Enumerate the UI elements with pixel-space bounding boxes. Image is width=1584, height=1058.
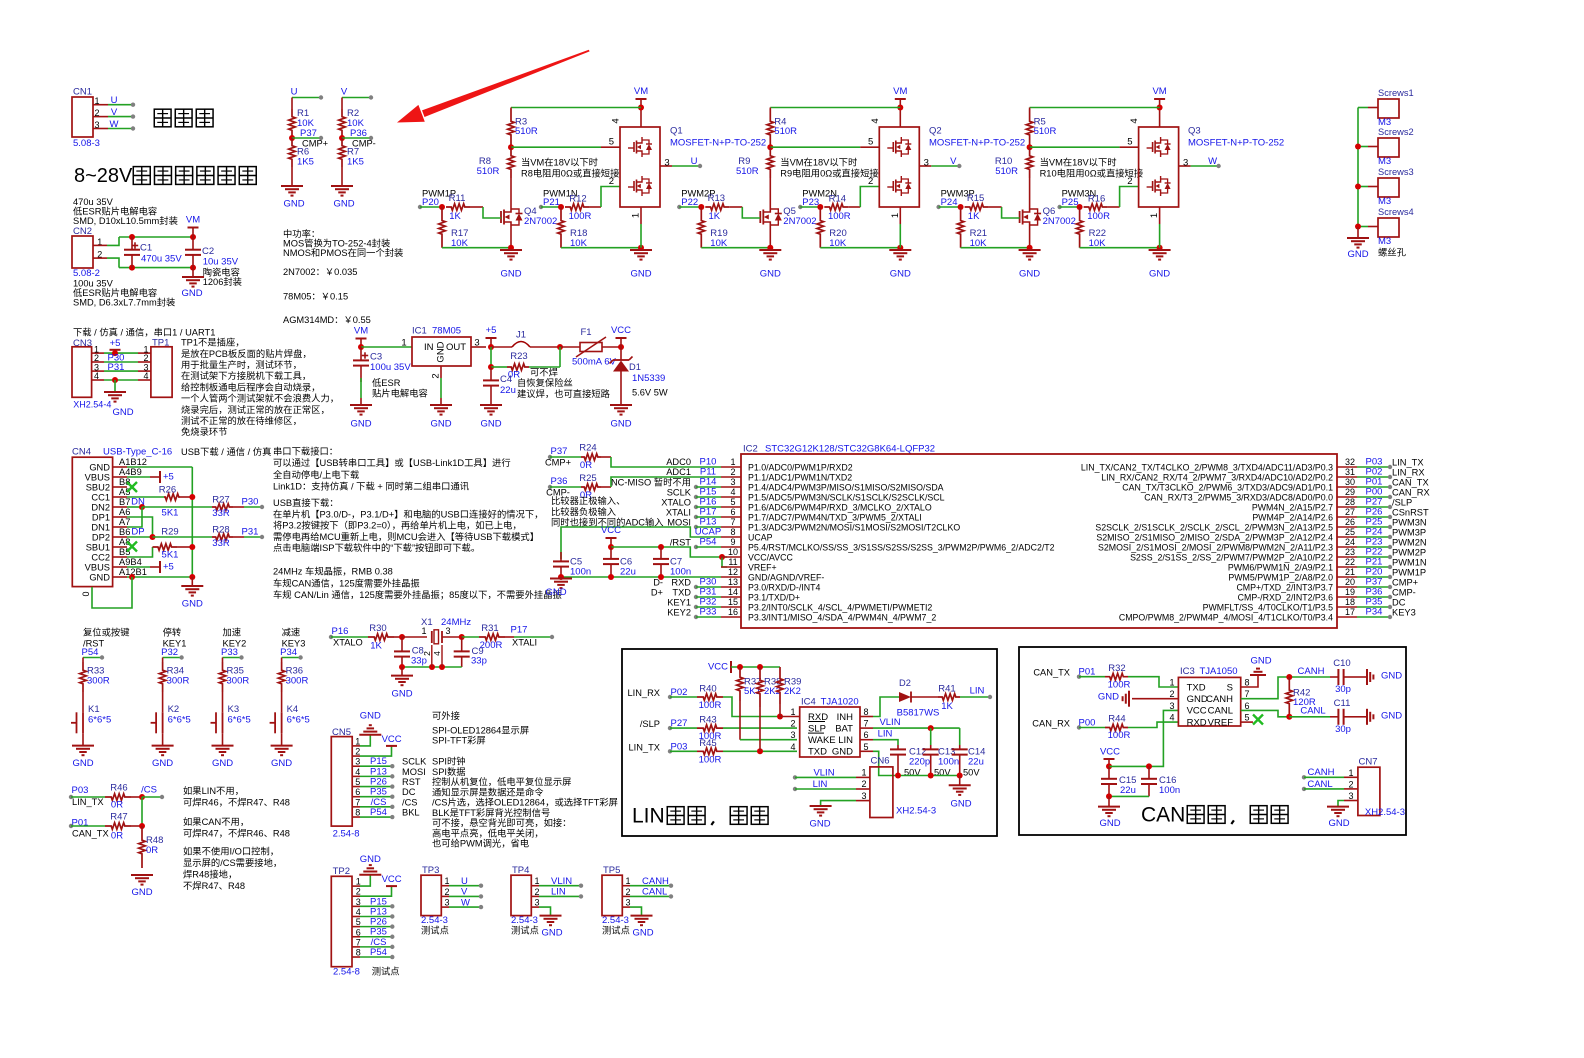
svg-text:PWM2N: PWM2N <box>1392 538 1427 548</box>
svg-text:NMOS和PMOS在同一个封装: NMOS和PMOS在同一个封装 <box>283 247 403 258</box>
svg-text:一个人管两个测试架就不会浪费人力，: 一个人管两个测试架就不会浪费人力， <box>181 393 339 404</box>
svg-text:22u: 22u <box>968 757 984 768</box>
svg-text:X1: X1 <box>421 617 433 628</box>
svg-text:28: 28 <box>1345 497 1355 507</box>
svg-text:IC4: IC4 <box>801 697 816 708</box>
svg-text:23: 23 <box>1345 547 1355 557</box>
svg-text:2: 2 <box>1348 780 1353 790</box>
svg-text:建议焊，也可直接短路: 建议焊，也可直接短路 <box>517 388 611 399</box>
svg-text:VLIN: VLIN <box>551 876 572 887</box>
svg-text:可焊R47，不焊R46、R48: 可焊R47，不焊R46、R48 <box>183 828 290 839</box>
svg-text:C10: C10 <box>1333 658 1350 669</box>
svg-text:5: 5 <box>609 137 614 148</box>
svg-text:26: 26 <box>1345 517 1355 527</box>
svg-text:9: 9 <box>730 537 735 547</box>
svg-text:8: 8 <box>863 707 868 717</box>
svg-text:GND: GND <box>430 419 451 430</box>
svg-text:U: U <box>291 87 298 98</box>
svg-text:比较器负极输入: 比较器负极输入 <box>551 506 616 517</box>
svg-text:22u: 22u <box>500 385 516 396</box>
svg-text:GND: GND <box>832 747 853 758</box>
svg-text:ADC1: ADC1 <box>666 467 691 477</box>
svg-text:6*6*5: 6*6*5 <box>168 715 191 726</box>
svg-text:用于批量生产时，测试环节，: 用于批量生产时，测试环节， <box>181 359 302 370</box>
svg-text:自恢复保险丝: 自恢复保险丝 <box>517 377 573 388</box>
svg-text:32: 32 <box>1345 457 1355 467</box>
svg-text:LIN: LIN <box>878 729 893 740</box>
svg-text:KEY2: KEY2 <box>667 608 691 618</box>
svg-text:烧录完后，测试正常的放在正常区，: 烧录完后，测试正常的放在正常区， <box>181 404 330 415</box>
svg-text:GND/AGND/VREF-: GND/AGND/VREF- <box>748 573 824 583</box>
svg-text:CMP-: CMP- <box>1392 588 1416 598</box>
svg-text:低ESR贴片电解电容: 低ESR贴片电解电容 <box>73 287 157 298</box>
svg-text:33R: 33R <box>212 508 230 519</box>
svg-text:CAN: CAN <box>1141 804 1185 827</box>
svg-text:2: 2 <box>1127 176 1132 187</box>
svg-text:P1.4/ADC4/PWM3P/MISO/S1MISO/S2: P1.4/ADC4/PWM3P/MISO/S1MISO/S2MISO/SDA <box>748 483 944 493</box>
svg-text:R41: R41 <box>938 684 955 695</box>
svg-text:A9B4: A9B4 <box>119 557 142 567</box>
svg-text:100R: 100R <box>828 211 851 222</box>
svg-text:SMD, D6.3xL7.7mm封装: SMD, D6.3xL7.7mm封装 <box>73 296 175 307</box>
svg-text:GND: GND <box>1099 818 1120 829</box>
svg-text:免烧录环节: 免烧录环节 <box>181 426 228 437</box>
svg-text:VCC: VCC <box>1187 706 1207 717</box>
svg-text:1: 1 <box>790 707 795 717</box>
svg-text:5: 5 <box>355 777 360 787</box>
svg-text:GND: GND <box>181 288 202 299</box>
svg-text:/CS: /CS <box>402 797 418 807</box>
svg-text:4: 4 <box>1129 118 1140 123</box>
svg-text:50V: 50V <box>963 768 980 778</box>
svg-text:8: 8 <box>730 527 735 537</box>
svg-text:P33: P33 <box>221 647 238 658</box>
svg-text:D1: D1 <box>629 362 641 372</box>
svg-text:2.54-8: 2.54-8 <box>333 967 360 978</box>
svg-text:P1.6/ADC6/PWM4P/RXD_3/MCLKO_2/: P1.6/ADC6/PWM4P/RXD_3/MCLKO_2/XTALO <box>748 503 932 513</box>
svg-text:BKL: BKL <box>402 808 420 818</box>
svg-text:GND: GND <box>950 799 971 810</box>
svg-text:AGM314MD：￥0.55: AGM314MD：￥0.55 <box>283 315 371 325</box>
svg-text:CAN_TX/T3CLKO_2/PWM6_3/TXD3/AD: CAN_TX/T3CLKO_2/PWM6_3/TXD3/ADC9/AD1/P0.… <box>1122 483 1333 493</box>
svg-text:GND: GND <box>760 269 781 280</box>
svg-text:P3.3/INT1/MISO_4/SDA_4/PWM4N_4: P3.3/INT1/MISO_4/SDA_4/PWM4N_4/PWM7_2 <box>748 613 936 623</box>
svg-text:TXD: TXD <box>808 747 827 758</box>
svg-text:24MHz 车规晶振，RMB 0.38: 24MHz 车规晶振，RMB 0.38 <box>273 566 393 577</box>
svg-text:1: 1 <box>1348 768 1353 778</box>
svg-text:3: 3 <box>445 626 450 636</box>
svg-text:LIN: LIN <box>632 805 665 828</box>
svg-text:P1.1/ADC1/PWM1N/TXD2: P1.1/ADC1/PWM1N/TXD2 <box>748 473 852 483</box>
svg-text:1K5: 1K5 <box>297 157 314 168</box>
svg-text:CMP+/TXD_2/INT3/P3.7: CMP+/TXD_2/INT3/P3.7 <box>1236 583 1333 593</box>
svg-text:2: 2 <box>625 887 630 897</box>
svg-text:SCLK: SCLK <box>667 488 692 498</box>
svg-text:CN2: CN2 <box>73 226 92 237</box>
svg-text:GND: GND <box>1149 269 1170 280</box>
svg-text:R8电阻用0Ω或直接短接: R8电阻用0Ω或直接短接 <box>521 168 619 179</box>
svg-text:P1.7/ADC7/PWM4N/TXD_3/PWM5_2/X: P1.7/ADC7/PWM4N/TXD_3/PWM5_2/XTALI <box>748 513 922 523</box>
svg-text:IN: IN <box>424 342 434 353</box>
svg-text:Screws3: Screws3 <box>1378 167 1414 177</box>
svg-text:USB直接下载：: USB直接下载： <box>273 497 339 508</box>
svg-text:GND: GND <box>1347 249 1368 260</box>
svg-text:复位或按键: 复位或按键 <box>83 627 130 638</box>
svg-text:R15: R15 <box>967 193 984 204</box>
svg-text:S2MISO_2/S1MISO_2/MISO_2/SDA_2: S2MISO_2/S1MISO_2/MISO_2/SDA_2/PWM3P_2/A… <box>1096 533 1333 543</box>
svg-text:GND: GND <box>1098 692 1119 703</box>
svg-text:5: 5 <box>1244 713 1249 723</box>
svg-text:LIN_TX/CAN2_TX/T4CLKO_2/PWM8_3: LIN_TX/CAN2_TX/T4CLKO_2/PWM8_3/TXD4/ADC1… <box>1081 463 1333 473</box>
svg-text:W: W <box>461 897 470 908</box>
svg-text:当VM在18V以下时: 当VM在18V以下时 <box>521 157 598 168</box>
svg-text:VM: VM <box>893 86 907 97</box>
svg-text:DN1: DN1 <box>91 523 110 533</box>
svg-text:XTALO: XTALO <box>661 498 691 508</box>
svg-text:P54: P54 <box>82 647 99 658</box>
svg-text:K3: K3 <box>228 704 240 715</box>
svg-text:P3.1/TXD/D+: P3.1/TXD/D+ <box>748 593 800 603</box>
svg-text:2: 2 <box>861 779 866 789</box>
svg-text:+5: +5 <box>163 562 174 573</box>
svg-text:+5: +5 <box>110 338 121 349</box>
svg-text:1: 1 <box>444 876 449 886</box>
svg-text:100n: 100n <box>1159 785 1180 796</box>
svg-text:2N7002: 2N7002 <box>1043 216 1076 227</box>
svg-text:P17: P17 <box>511 625 528 636</box>
svg-text:7: 7 <box>1244 689 1249 699</box>
svg-text:比较器正极输入、: 比较器正极输入、 <box>551 495 625 506</box>
svg-text:MOSFET-N+P-TO-252: MOSFET-N+P-TO-252 <box>929 138 1025 149</box>
svg-text:VREF+: VREF+ <box>748 563 777 573</box>
svg-text:P36: P36 <box>551 476 568 487</box>
svg-text:1K: 1K <box>370 641 382 652</box>
svg-text:8: 8 <box>356 948 361 958</box>
svg-text:1: 1 <box>401 338 406 349</box>
svg-text:GND: GND <box>391 689 412 700</box>
svg-text:P31: P31 <box>108 362 125 373</box>
svg-text:R25: R25 <box>579 473 596 484</box>
svg-text:2N7002：￥0.035: 2N7002：￥0.035 <box>283 267 357 277</box>
svg-text:100R: 100R <box>1108 730 1131 741</box>
svg-text:/CS: /CS <box>141 785 157 796</box>
svg-text:R44: R44 <box>1108 714 1125 725</box>
svg-text:XTALO: XTALO <box>333 638 363 648</box>
svg-text:0: 0 <box>81 591 91 596</box>
svg-text:2: 2 <box>790 719 795 729</box>
svg-text:CAN_TX: CAN_TX <box>1392 478 1429 488</box>
svg-text:GND: GND <box>131 887 152 898</box>
svg-text:CMP+: CMP+ <box>545 458 571 468</box>
svg-text:C2: C2 <box>202 246 214 257</box>
svg-text:5K1: 5K1 <box>162 550 179 561</box>
svg-text:33p: 33p <box>411 656 427 667</box>
svg-text:测试点: 测试点 <box>511 925 539 936</box>
svg-text:CSnRST: CSnRST <box>1392 508 1429 518</box>
svg-text:RXD: RXD <box>1187 717 1207 728</box>
svg-text:510R: 510R <box>774 126 797 137</box>
svg-text:INH: INH <box>837 712 854 723</box>
svg-text:LIN_RX: LIN_RX <box>1392 468 1425 478</box>
svg-text:1: 1 <box>356 877 361 887</box>
svg-text:GND: GND <box>480 419 501 430</box>
svg-text:P1.0/ADC0/PWM1P/RXD2: P1.0/ADC0/PWM1P/RXD2 <box>748 463 853 473</box>
svg-text:GND: GND <box>632 928 653 939</box>
svg-text:P33: P33 <box>700 607 717 618</box>
svg-text:S2SS_2/S1SS_2/SS_2/PWM7/PWM2P_: S2SS_2/S1SS_2/SS_2/PWM7/PWM2P_2/A10/P2.2 <box>1130 553 1333 563</box>
svg-text:VCC: VCC <box>611 325 631 336</box>
svg-text:5.08-2: 5.08-2 <box>73 268 100 279</box>
svg-text:16: 16 <box>728 607 738 617</box>
svg-text:VLIN: VLIN <box>879 717 900 728</box>
svg-text:VBUS: VBUS <box>85 473 110 483</box>
svg-text:100R: 100R <box>699 754 722 765</box>
svg-text:GND: GND <box>112 407 133 418</box>
svg-text:下载 / 仿真 / 通信，串口1 / UART1: 下载 / 仿真 / 通信，串口1 / UART1 <box>73 327 215 338</box>
svg-text:CAN_RX: CAN_RX <box>1032 719 1070 729</box>
svg-text:WAKE: WAKE <box>808 735 836 746</box>
svg-text:GND: GND <box>360 711 381 722</box>
svg-text:TJA1050: TJA1050 <box>1200 666 1238 677</box>
svg-text:VBUS: VBUS <box>85 563 110 573</box>
svg-text:+5: +5 <box>486 325 497 336</box>
svg-text:8: 8 <box>355 808 360 818</box>
svg-text:5K1: 5K1 <box>162 508 179 519</box>
svg-text:P16: P16 <box>332 626 349 637</box>
svg-text:1: 1 <box>94 96 99 106</box>
svg-text:220p: 220p <box>909 757 930 768</box>
svg-text:3: 3 <box>1183 158 1188 169</box>
svg-text:TP5: TP5 <box>603 865 620 876</box>
svg-text:3: 3 <box>924 158 929 169</box>
svg-text:点击电脑端ISP下载软件中的“下载”按钮即可下载。: 点击电脑端ISP下载软件中的“下载”按钮即可下载。 <box>273 542 480 553</box>
svg-text:300R: 300R <box>286 676 309 687</box>
svg-text:SPI-TFT彩屏: SPI-TFT彩屏 <box>432 735 486 745</box>
svg-text:RXD: RXD <box>671 578 691 588</box>
svg-text:GND: GND <box>333 199 354 210</box>
svg-text:BLK是TFT彩屏背光控制信号: BLK是TFT彩屏背光控制信号 <box>432 807 550 818</box>
svg-text:DC: DC <box>1392 598 1406 608</box>
svg-text:7: 7 <box>355 797 360 807</box>
svg-text:DC: DC <box>402 787 416 797</box>
svg-text:OUT: OUT <box>446 342 466 353</box>
svg-text:XH2.54-4: XH2.54-4 <box>73 400 111 410</box>
svg-text:7: 7 <box>356 937 361 947</box>
svg-text:P5.4/RST/MCLKO/SS/SS_3/S1SS/S2: P5.4/RST/MCLKO/SS/SS_3/S1SS/S2SS/S2SS_3/… <box>748 543 1055 553</box>
svg-text:CANL: CANL <box>1208 706 1233 717</box>
svg-text:NC-MISO 暂时不用: NC-MISO 暂时不用 <box>611 477 691 488</box>
svg-text:2: 2 <box>431 373 442 378</box>
svg-text:P32: P32 <box>161 647 178 658</box>
svg-text:可外接: 可外接 <box>432 710 460 721</box>
svg-text:VM: VM <box>1152 86 1166 97</box>
svg-text:测试点: 测试点 <box>421 925 449 936</box>
svg-text:22u: 22u <box>620 567 636 578</box>
svg-text:中功率：: 中功率： <box>283 228 320 239</box>
svg-text:不焊R47、R48: 不焊R47、R48 <box>183 880 245 891</box>
svg-text:3: 3 <box>664 158 669 169</box>
svg-text:CAN_TX: CAN_TX <box>1033 668 1070 678</box>
svg-text:D2: D2 <box>899 678 911 688</box>
svg-text:MOSI: MOSI <box>667 518 691 528</box>
svg-text:33R: 33R <box>212 538 230 549</box>
svg-text:100R: 100R <box>1108 680 1131 691</box>
svg-text:100u 35V: 100u 35V <box>73 278 114 288</box>
svg-text:3: 3 <box>1169 701 1174 711</box>
svg-text:C3: C3 <box>370 352 382 363</box>
svg-text:控制从机复位，低电平复位显示屏: 控制从机复位，低电平复位显示屏 <box>432 776 571 787</box>
svg-text:4: 4 <box>143 371 148 381</box>
svg-text:M3: M3 <box>1378 156 1391 167</box>
svg-text:GND: GND <box>72 758 93 769</box>
svg-text:GND: GND <box>350 419 371 430</box>
svg-text:停转: 停转 <box>163 627 182 638</box>
svg-text:Link1D：支持仿真 / 下载 + 同时第二组串口通讯: Link1D：支持仿真 / 下载 + 同时第二组串口通讯 <box>273 481 469 492</box>
svg-text:加速: 加速 <box>223 628 242 638</box>
svg-text:如果不使用I/O口控制，: 如果不使用I/O口控制， <box>183 846 279 857</box>
svg-text:18: 18 <box>1345 597 1355 607</box>
svg-text:SCLK: SCLK <box>402 757 427 767</box>
svg-text:3: 3 <box>444 898 449 908</box>
svg-text:当VM在18V以下时: 当VM在18V以下时 <box>780 157 857 168</box>
svg-text:100n: 100n <box>938 757 959 768</box>
svg-text:5.08-3: 5.08-3 <box>73 138 100 149</box>
svg-text:2.54-3: 2.54-3 <box>511 915 538 926</box>
svg-text:CN4: CN4 <box>72 447 91 458</box>
svg-text:500mA 6V: 500mA 6V <box>572 357 616 368</box>
svg-text:PWM3N: PWM3N <box>1392 518 1427 528</box>
svg-text:GND: GND <box>1250 656 1271 667</box>
svg-text:GND: GND <box>89 463 110 473</box>
svg-text:如果LIN不用，: 如果LIN不用， <box>183 785 244 796</box>
svg-text:3: 3 <box>790 730 795 740</box>
svg-text:VCC: VCC <box>601 525 621 536</box>
svg-text:LIN: LIN <box>551 887 566 898</box>
svg-text:MOSFET-N+P-TO-252: MOSFET-N+P-TO-252 <box>670 138 766 149</box>
svg-text:A4B9: A4B9 <box>119 467 142 477</box>
svg-text:Screws2: Screws2 <box>1378 127 1414 137</box>
svg-text:DN: DN <box>131 497 145 508</box>
svg-text:可不焊: 可不焊 <box>530 367 558 378</box>
svg-text:MOSI: MOSI <box>402 767 426 777</box>
svg-text:UCAP: UCAP <box>748 533 773 543</box>
svg-text:/RST: /RST <box>670 538 691 548</box>
svg-text:当VM在18V以下时: 当VM在18V以下时 <box>1040 157 1117 168</box>
svg-text:SPI数据: SPI数据 <box>432 766 466 777</box>
svg-text:PWM1P: PWM1P <box>1392 568 1426 578</box>
svg-text:2: 2 <box>444 887 449 897</box>
svg-text:5: 5 <box>730 497 735 507</box>
svg-text:CAN_TX: CAN_TX <box>72 829 109 839</box>
svg-text:CAN_RX/T3_2/PWM5_3/RXD3/ADC8/A: CAN_RX/T3_2/PWM5_3/RXD3/ADC8/AD0/P0.0 <box>1144 493 1333 503</box>
svg-text:20: 20 <box>1345 577 1355 587</box>
svg-text:CMP-/RXD_2/INT2/P3.6: CMP-/RXD_2/INT2/P3.6 <box>1238 593 1333 603</box>
svg-text:R32: R32 <box>1108 663 1125 674</box>
svg-text:通知显示屏是数据还是命令: 通知显示屏是数据还是命令 <box>432 786 544 797</box>
svg-text:1N5339: 1N5339 <box>632 373 665 384</box>
svg-text:P01: P01 <box>72 818 89 829</box>
svg-text:VREF: VREF <box>1208 717 1234 728</box>
svg-text:R45: R45 <box>699 738 716 749</box>
svg-text:470u 35V: 470u 35V <box>141 254 182 265</box>
svg-text:KEY1: KEY1 <box>667 598 691 608</box>
svg-text:PWMFLT/SS_4/T0CLKO/T1/P3.5: PWMFLT/SS_4/T0CLKO/T1/P3.5 <box>1203 603 1333 613</box>
svg-text:10u 35V: 10u 35V <box>203 257 239 268</box>
svg-text:1K: 1K <box>708 211 720 222</box>
svg-text:GND: GND <box>271 758 292 769</box>
svg-text:车规 CAN/Lin 通信，125度需要外挂晶振；85度以下: 车规 CAN/Lin 通信，125度需要外挂晶振；85度以下，不需要外挂晶振 <box>273 589 562 600</box>
svg-text:100R: 100R <box>1087 211 1110 222</box>
svg-text:10: 10 <box>728 547 738 557</box>
svg-text:IC3: IC3 <box>1180 666 1195 677</box>
svg-text:GND: GND <box>1019 269 1040 280</box>
svg-text:BAT: BAT <box>835 723 853 734</box>
svg-text:0R: 0R <box>580 460 592 471</box>
svg-text:100R: 100R <box>699 700 722 711</box>
svg-text:13: 13 <box>728 577 738 587</box>
svg-text:CN6: CN6 <box>870 756 889 767</box>
svg-text:30: 30 <box>1345 477 1355 487</box>
svg-text:A1B12: A1B12 <box>119 457 147 467</box>
svg-text:TXD: TXD <box>1187 682 1206 693</box>
svg-text:测试点: 测试点 <box>602 925 630 936</box>
svg-text:0R: 0R <box>111 831 123 842</box>
svg-text:P03: P03 <box>72 785 89 796</box>
svg-text:P54: P54 <box>700 537 717 548</box>
svg-text:B6: B6 <box>119 527 130 537</box>
svg-text:PWM5/PWM1P_2/A8/P2.0: PWM5/PWM1P_2/A8/P2.0 <box>1228 573 1333 583</box>
svg-text:100n: 100n <box>570 567 591 578</box>
svg-text:SMD, D10xL10.5mm封装: SMD, D10xL10.5mm封装 <box>73 215 178 226</box>
svg-text:29: 29 <box>1345 487 1355 497</box>
svg-text:7: 7 <box>863 719 868 729</box>
svg-text:2N7002: 2N7002 <box>783 216 816 227</box>
svg-text:可不接，悬空背光即可亮，如接：: 可不接，悬空背光即可亮，如接： <box>432 817 571 828</box>
svg-text:车规CAN通信，125度需要外挂晶振: 车规CAN通信，125度需要外挂晶振 <box>273 577 420 588</box>
svg-text:2: 2 <box>94 108 99 118</box>
svg-text:TP2: TP2 <box>333 866 350 877</box>
svg-text:在测试架下方接脱机下载工具，: 在测试架下方接脱机下载工具， <box>181 370 311 381</box>
svg-text:1: 1 <box>355 736 360 746</box>
svg-text:470u 35V: 470u 35V <box>73 197 114 207</box>
svg-text:PWM3P: PWM3P <box>1392 528 1426 538</box>
svg-text:GND: GND <box>212 758 233 769</box>
svg-text:VM: VM <box>634 86 648 97</box>
svg-text:P1.3/ADC3/PWM2N/MOSI/S1MOSI/S2: P1.3/ADC3/PWM2N/MOSI/S1MOSI/S2MOSI/T2CLK… <box>748 523 960 533</box>
svg-text:C1: C1 <box>140 243 152 254</box>
svg-text:CN7: CN7 <box>1358 757 1377 768</box>
svg-text:CANL: CANL <box>642 887 667 898</box>
svg-text:DP1: DP1 <box>92 513 110 523</box>
svg-text:4: 4 <box>94 371 99 381</box>
svg-text:VCC: VCC <box>382 874 402 885</box>
svg-text:6: 6 <box>356 927 361 937</box>
svg-text:4: 4 <box>790 742 795 752</box>
svg-text:Q3: Q3 <box>1188 126 1201 137</box>
svg-text:可焊R46，不焊R47、R48: 可焊R46，不焊R47、R48 <box>183 797 290 808</box>
svg-text:A6: A6 <box>119 507 130 517</box>
svg-text:PWM1N: PWM1N <box>1392 558 1427 568</box>
svg-text:低ESR贴片电解电容: 低ESR贴片电解电容 <box>73 206 157 217</box>
svg-text:CANL: CANL <box>1300 706 1325 717</box>
svg-text:R30: R30 <box>369 623 386 634</box>
svg-text:510R: 510R <box>736 166 759 177</box>
svg-text:19: 19 <box>1345 587 1355 597</box>
svg-text:1K5: 1K5 <box>347 157 364 168</box>
svg-text:Q2: Q2 <box>929 126 942 137</box>
svg-text:22: 22 <box>1345 557 1355 567</box>
svg-text:CAN_RX: CAN_RX <box>1392 488 1430 498</box>
